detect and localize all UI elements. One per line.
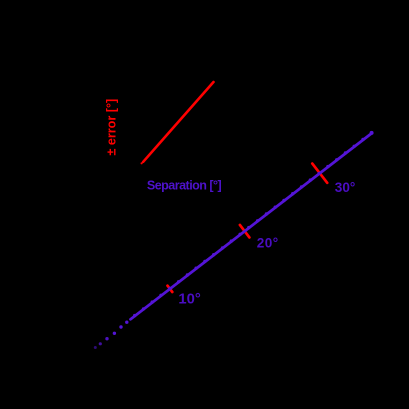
fading dotted tail of separation line (94, 321, 129, 350)
svg-text:± error [°]: ± error [°] (105, 99, 119, 156)
red error-vs-separation curve (inset plot line) (143, 82, 213, 162)
bead bumps along the separation line (133, 131, 374, 317)
svg-text:Separation [°]: Separation [°] (147, 179, 222, 193)
svg-text:30°: 30° (335, 180, 356, 195)
red error tick at 10 degrees (168, 286, 173, 292)
red error tick at 30 degrees (312, 164, 327, 183)
svg-text:20°: 20° (257, 236, 279, 251)
detached dot at lower end of red curve (141, 162, 143, 164)
main violet separation line (solid part) (131, 133, 373, 319)
red error tick at 20 degrees (240, 225, 250, 238)
svg-text:10°: 10° (178, 292, 200, 308)
